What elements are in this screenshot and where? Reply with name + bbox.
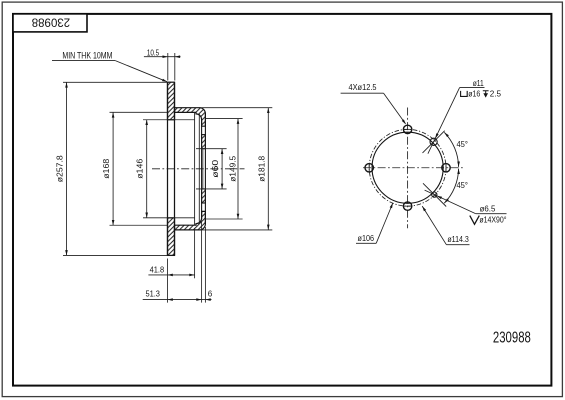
note MIN THK 10MM <box>52 51 168 84</box>
flange back face line <box>204 114 206 224</box>
dim 51.3 and 6 <box>143 222 213 303</box>
hat drum wall bottom <box>175 211 206 230</box>
drum inner end edge <box>194 112 196 225</box>
title text 230988 rotated <box>31 16 70 30</box>
svg-text:ø11: ø11 <box>473 78 484 88</box>
bolt hole left <box>365 164 373 172</box>
svg-text:10.5: 10.5 <box>147 47 160 57</box>
bolt circle 114.3 dash-dot <box>369 129 446 206</box>
label 114.3 <box>421 205 469 244</box>
dim 146 line <box>135 120 195 218</box>
bore silhouette bottom <box>196 188 227 190</box>
bolt hole top <box>403 125 411 133</box>
dim 10.5 top <box>144 47 181 80</box>
svg-text:41.8: 41.8 <box>150 264 165 274</box>
bore silhouette top / dim060 ext <box>196 148 227 150</box>
dim 168 line <box>101 112 167 225</box>
45 deg arc lower <box>443 169 468 204</box>
svg-text:230988: 230988 <box>493 329 531 346</box>
label 11 counterbore <box>428 78 501 154</box>
hub flange wall hatched segments <box>202 135 206 203</box>
svg-text:ø181.8: ø181.8 <box>256 156 266 182</box>
45deg radial upper <box>423 131 445 153</box>
label 6.5 countersink <box>425 190 507 225</box>
svg-text:MIN THK 10MM: MIN THK 10MM <box>62 51 112 61</box>
svg-text:ø6.5: ø6.5 <box>480 204 496 214</box>
centerline axis <box>152 168 245 170</box>
screw hole lower-right <box>432 192 437 197</box>
flange front face line <box>201 119 203 219</box>
screw hole upper-right <box>430 138 437 145</box>
vertical centerline <box>407 108 409 229</box>
dim 41.8 <box>148 228 194 303</box>
svg-text:ø257.8: ø257.8 <box>54 155 64 182</box>
svg-text:6: 6 <box>208 288 213 298</box>
svg-text:ø168: ø168 <box>101 159 111 179</box>
bore chamfer edge <box>202 149 204 189</box>
svg-text:51.3: 51.3 <box>145 288 160 298</box>
dim 149.5 line <box>205 119 242 219</box>
dim 60 line <box>210 149 223 189</box>
bolt hole right <box>442 164 450 172</box>
svg-text:45°: 45° <box>456 139 468 149</box>
svg-text:ø149.5: ø149.5 <box>227 156 237 182</box>
dim 181.8 line <box>199 108 272 230</box>
45 deg arc upper <box>443 131 468 166</box>
svg-text:ø106: ø106 <box>358 233 375 243</box>
title box <box>13 14 87 32</box>
svg-text:2.5: 2.5 <box>490 89 502 99</box>
label 4X12.5 <box>341 82 407 125</box>
svg-text:45°: 45° <box>456 180 468 190</box>
45deg radial lower <box>423 183 446 206</box>
label 106 <box>356 202 394 243</box>
hub spigot edge <box>198 114 200 224</box>
ring section hatch bottom <box>168 218 175 256</box>
hat drum wall top <box>175 108 206 127</box>
svg-text:4Xø12.5: 4Xø12.5 <box>349 82 377 92</box>
svg-text:ø114.3: ø114.3 <box>447 234 469 244</box>
svg-text:230988: 230988 <box>31 16 70 30</box>
ring right face line full <box>174 82 176 255</box>
horizontal centerline <box>363 167 463 169</box>
dim 257.8 line <box>54 82 167 255</box>
svg-text:ø146: ø146 <box>135 159 145 179</box>
svg-text:ø16: ø16 <box>468 89 480 99</box>
ring left face line full <box>167 82 169 255</box>
hub face circle 106 <box>372 132 443 203</box>
ring section hatch top <box>168 82 175 120</box>
bolt hole bottom <box>403 202 411 210</box>
svg-text:ø14X90°: ø14X90° <box>479 216 506 225</box>
svg-text:ø60: ø60 <box>210 159 220 177</box>
